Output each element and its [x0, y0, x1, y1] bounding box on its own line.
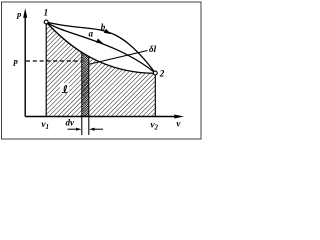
label l (script) — [62, 86, 67, 93]
label l halo — [60, 83, 69, 94]
curve a — [46, 22, 155, 73]
svg-text:2: 2 — [159, 68, 165, 78]
delta l leader line — [89, 51, 148, 65]
svg-text:p: p — [16, 9, 21, 19]
strip edge lines below axis — [81, 52, 83, 135]
svg-text:a: a — [89, 29, 94, 39]
svg-text:p: p — [13, 56, 18, 66]
dv strip cross-hatched — [82, 48, 89, 118]
point 1 — [44, 20, 48, 24]
svg-text:dv: dv — [66, 117, 76, 127]
svg-text:b: b — [101, 22, 106, 32]
dashed p level line — [26, 60, 82, 62]
svg-text:1: 1 — [44, 8, 49, 18]
hatched work area l — [46, 22, 155, 117]
arrow on curve b — [104, 29, 111, 34]
main process curve 1-2 — [46, 22, 155, 73]
hatch right edge v2 line — [154, 73, 156, 117]
hatch left edge v1 line — [45, 22, 47, 117]
arrow on curve a — [96, 39, 103, 44]
point 2 — [153, 71, 157, 75]
v axis — [25, 116, 180, 118]
frame border — [2, 2, 202, 139]
svg-text:δl: δl — [149, 44, 157, 54]
p axis — [24, 12, 26, 117]
dv dimension arrows — [68, 128, 80, 130]
curve b — [46, 22, 155, 73]
